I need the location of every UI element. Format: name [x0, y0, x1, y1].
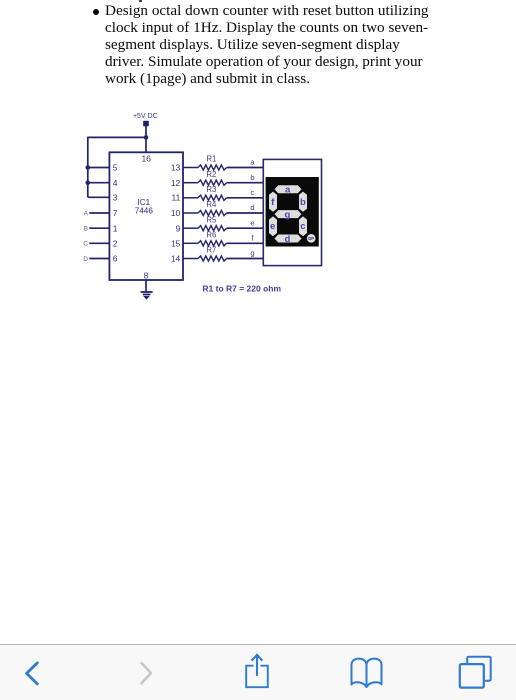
svg-text:g: g — [284, 210, 290, 221]
node D — [83, 256, 88, 263]
svg-text:16: 16 — [141, 154, 151, 164]
wire +5V branch to left rail — [88, 136, 146, 138]
pin 2 label — [113, 238, 118, 248]
svg-text:e: e — [270, 221, 275, 232]
wire D to pin 6 — [89, 258, 109, 260]
svg-text:R1: R1 — [206, 155, 216, 164]
resistor R4 — [183, 200, 227, 215]
svg-text:5: 5 — [113, 163, 118, 173]
pin 12 label — [171, 178, 181, 188]
node C — [83, 241, 88, 248]
pin 3 label — [113, 192, 118, 202]
pin 6 label — [113, 254, 118, 264]
pin 16 label — [141, 154, 151, 164]
resistor R7 — [183, 246, 227, 261]
svg-text:C: C — [83, 241, 88, 248]
svg-text:c: c — [251, 188, 255, 197]
svg-text:d: d — [250, 203, 254, 212]
pin 10 label — [171, 208, 181, 218]
wire R1 to segment a — [227, 158, 264, 168]
segment c — [299, 216, 307, 236]
junction pin 4 — [86, 180, 91, 185]
pin 13 label — [171, 163, 181, 173]
wire R7 to segment g — [227, 249, 264, 259]
svg-text:11: 11 — [171, 192, 180, 202]
pin 8 label — [144, 270, 149, 280]
svg-text:7446: 7446 — [135, 207, 154, 216]
svg-text:R7: R7 — [206, 246, 216, 255]
svg-text:a: a — [285, 185, 291, 196]
back button — [27, 663, 38, 684]
pin 4 label — [113, 178, 118, 188]
wire to pin 5 — [88, 167, 110, 169]
svg-text:R2: R2 — [206, 170, 216, 179]
pin 9 label — [176, 223, 181, 233]
segment f — [269, 192, 277, 212]
svg-text:9: 9 — [176, 223, 181, 233]
svg-text:e: e — [250, 218, 254, 227]
svg-text:8: 8 — [144, 270, 149, 280]
svg-text:a: a — [250, 158, 255, 167]
segment e — [269, 216, 277, 236]
svg-text:R4: R4 — [206, 200, 217, 209]
ground — [141, 292, 153, 300]
svg-text:f: f — [251, 234, 254, 243]
resistor R1 — [183, 155, 227, 170]
node A — [84, 210, 89, 217]
svg-text:B: B — [84, 226, 88, 233]
wire R5 to segment e — [227, 218, 264, 228]
resistor R5 — [183, 215, 227, 230]
pin 7 label — [113, 208, 118, 218]
svg-text:7: 7 — [113, 208, 118, 218]
junction +5V branch — [144, 135, 149, 140]
+5V DC label — [133, 113, 158, 120]
IC1 reference label — [137, 198, 150, 207]
svg-text:R1 to R7 = 220 ohm: R1 to R7 = 220 ohm — [202, 284, 281, 294]
wire A to pin 7 — [89, 212, 109, 214]
resistor values note R1 to R7 = 220 ohm — [202, 284, 281, 294]
segment g — [275, 210, 302, 221]
svg-text:b: b — [300, 197, 306, 208]
+5V power terminal square — [143, 121, 149, 127]
wire B to pin 1 — [89, 227, 109, 229]
paragraph text — [105, 2, 429, 87]
resistor R3 — [183, 185, 227, 200]
pin 14 label — [171, 254, 181, 264]
bullet point — [93, 9, 99, 15]
svg-text:15: 15 — [171, 238, 181, 248]
wire R2 to segment b — [227, 173, 264, 183]
svg-text:10: 10 — [171, 208, 181, 218]
wire to pin 3 — [88, 196, 110, 198]
svg-text:6: 6 — [113, 254, 118, 264]
display black face — [266, 177, 319, 247]
ground wire from pin 8 — [145, 280, 147, 292]
bookmarks button — [352, 659, 382, 687]
svg-text:A: A — [84, 210, 89, 217]
segment b — [299, 192, 307, 212]
svg-text:DP: DP — [308, 236, 314, 241]
pin 5 label — [113, 163, 118, 173]
pin 1 label — [113, 223, 118, 233]
node B — [84, 226, 88, 233]
wire +5V to pin 16 — [145, 126, 147, 152]
IC IC1 7446 body — [109, 152, 183, 280]
wire R4 to segment d — [227, 203, 264, 213]
toolbar background — [0, 644, 516, 700]
seven-segment display body — [263, 159, 321, 265]
wire C to pin 2 — [89, 242, 109, 244]
svg-text:R5: R5 — [206, 215, 217, 224]
wire left rail vertical — [87, 137, 89, 198]
svg-text:d: d — [284, 234, 290, 245]
tabs button — [460, 657, 491, 688]
svg-text:14: 14 — [171, 254, 181, 264]
segment d — [275, 234, 302, 245]
svg-text:+5V DC: +5V DC — [133, 113, 158, 120]
svg-text:4: 4 — [113, 178, 118, 188]
stray mark top edge — [139, 0, 142, 2]
svg-text:2: 2 — [113, 238, 118, 248]
pin 15 label — [171, 238, 181, 248]
decimal point DP — [307, 234, 316, 243]
svg-text:c: c — [300, 221, 305, 232]
svg-text:D: D — [83, 256, 88, 263]
svg-text:13: 13 — [171, 163, 181, 173]
pin 11 label — [171, 192, 180, 202]
resistor R2 — [183, 170, 227, 185]
IC value 7446 — [135, 207, 154, 216]
svg-text:R6: R6 — [206, 231, 216, 240]
svg-text:12: 12 — [171, 178, 181, 188]
segment a — [275, 185, 302, 196]
resistor R6 — [183, 231, 227, 246]
wire to pin 4 — [88, 182, 110, 184]
forward button (disabled) — [142, 663, 151, 683]
svg-text:b: b — [250, 173, 254, 182]
share button — [246, 655, 268, 687]
svg-text:1: 1 — [113, 223, 118, 233]
wire R6 to segment f — [227, 234, 264, 244]
svg-text:3: 3 — [113, 192, 118, 202]
wire R3 to segment c — [227, 188, 264, 198]
svg-text:R3: R3 — [206, 185, 216, 194]
junction pin 5 — [86, 165, 91, 170]
svg-text:g: g — [250, 249, 254, 258]
